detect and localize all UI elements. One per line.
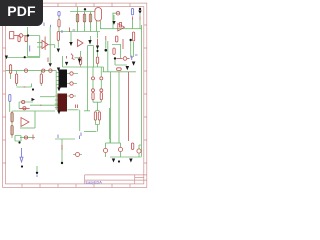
svg-text:EasyEDA: EasyEDA	[86, 181, 103, 185]
